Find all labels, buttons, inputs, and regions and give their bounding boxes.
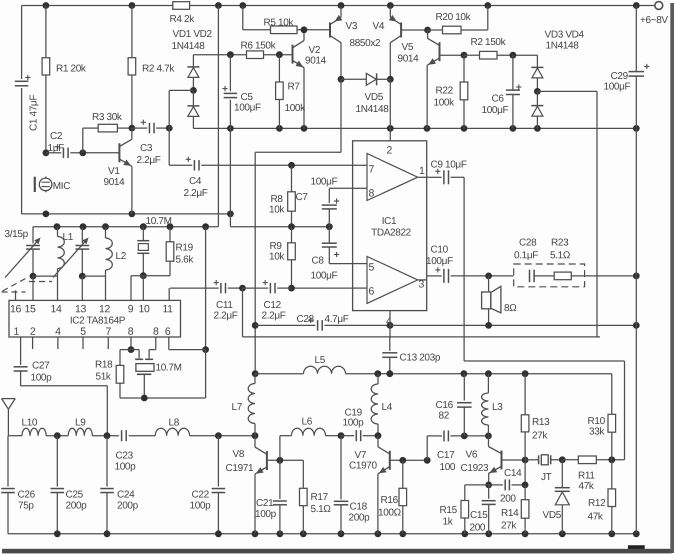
svg-text:100p: 100p xyxy=(255,509,277,520)
svg-text:L8: L8 xyxy=(168,418,179,429)
wire keying row xyxy=(464,360,624,362)
node R7 top xyxy=(276,51,283,58)
wire speaker bottom row xyxy=(390,324,636,326)
svg-text:R20 10k: R20 10k xyxy=(435,12,471,23)
transistor V6 xyxy=(488,436,490,447)
svg-text:2.2μF: 2.2μF xyxy=(261,311,285,322)
svg-text:R18: R18 xyxy=(95,360,113,371)
svg-text:VD1 VD2: VD1 VD2 xyxy=(172,29,212,40)
svg-text:0.1μF: 0.1μF xyxy=(514,250,538,261)
svg-text:1: 1 xyxy=(14,326,20,338)
svg-text:33k: 33k xyxy=(589,427,605,438)
page border right xyxy=(670,3,674,553)
inductor L5 xyxy=(255,373,303,375)
svg-text:200: 200 xyxy=(469,523,485,534)
IC U1 TDA2822 box xyxy=(353,141,427,311)
svg-text:9014: 9014 xyxy=(305,56,327,67)
svg-text:14: 14 xyxy=(51,303,62,315)
resistor R11 xyxy=(562,459,578,461)
inductor L1 xyxy=(57,227,59,237)
svg-text:100k: 100k xyxy=(433,98,455,109)
svg-text:2.2μF: 2.2μF xyxy=(183,188,207,199)
trimmer capacitor CT2 xyxy=(81,227,83,244)
svg-text:C10: C10 xyxy=(430,245,448,256)
node R8 top on pin7 row xyxy=(288,162,295,169)
pin 1 stub xyxy=(418,176,427,178)
svg-text:C28: C28 xyxy=(296,314,314,325)
svg-text:2: 2 xyxy=(386,145,392,157)
svg-text:JT: JT xyxy=(541,472,552,483)
wire C3 node riser to diode midpoint xyxy=(168,90,170,128)
svg-text:100μF: 100μF xyxy=(481,105,508,116)
svg-text:3/15p: 3/15p xyxy=(4,229,28,240)
wire RF row xyxy=(8,435,22,437)
svg-text:C22: C22 xyxy=(191,490,209,501)
capacitor C16 xyxy=(463,374,465,401)
svg-text:V4: V4 xyxy=(372,21,384,32)
svg-text:8850x2: 8850x2 xyxy=(349,38,381,49)
microphone MIC xyxy=(45,177,47,193)
svg-text:C14: C14 xyxy=(504,468,522,479)
svg-text:TDA2822: TDA2822 xyxy=(371,227,412,238)
capacitor C5 xyxy=(227,51,234,58)
wire V2 emitter xyxy=(303,68,305,129)
wire audio ground link column xyxy=(254,152,256,373)
svg-text:100p: 100p xyxy=(342,418,364,429)
capacitor C10 xyxy=(427,275,442,277)
page border bottom xyxy=(2,549,672,554)
svg-text:75p: 75p xyxy=(18,501,34,512)
svg-text:R5 10k: R5 10k xyxy=(263,18,294,29)
trimmer capacitor CT1 xyxy=(32,227,34,244)
svg-text:V3: V3 xyxy=(345,21,357,32)
wire pin6 row xyxy=(292,287,353,289)
op-amp A1 triangle xyxy=(367,154,418,201)
resistor R17 xyxy=(302,460,304,488)
wire filter ground row xyxy=(120,397,206,399)
svg-text:47k: 47k xyxy=(578,481,594,492)
svg-text:L4: L4 xyxy=(381,402,392,413)
svg-text:100p: 100p xyxy=(189,501,211,512)
wire V2 collector xyxy=(303,30,305,41)
node V7 collector xyxy=(338,432,345,439)
capacitor C1 xyxy=(15,80,29,82)
svg-text:5.1Ω: 5.1Ω xyxy=(550,250,571,261)
resistor R6 xyxy=(247,51,264,59)
svg-text:1N4148: 1N4148 xyxy=(545,41,579,52)
svg-text:2: 2 xyxy=(30,326,36,338)
svg-text:C1970: C1970 xyxy=(349,461,378,472)
dashed network box xyxy=(514,264,585,287)
node varactor top xyxy=(559,456,566,463)
svg-text:L7: L7 xyxy=(231,402,242,413)
svg-text:11: 11 xyxy=(162,303,173,315)
svg-text:R12: R12 xyxy=(588,498,606,509)
resistor R12 xyxy=(611,460,613,489)
capacitor C27 xyxy=(20,337,22,365)
resistor R7 xyxy=(278,55,280,82)
svg-text:C5: C5 xyxy=(240,92,253,103)
capacitor C25 xyxy=(56,436,58,487)
wire C9 drop to keying row xyxy=(463,177,465,361)
capacitor C8 xyxy=(328,227,330,244)
pin5 stub xyxy=(82,337,84,349)
svg-text:C1923: C1923 xyxy=(460,463,489,474)
wire V4 base row xyxy=(401,29,428,31)
svg-text:6: 6 xyxy=(368,286,374,298)
svg-text:7: 7 xyxy=(368,164,374,176)
svg-text:1: 1 xyxy=(419,165,425,177)
pin 5 stub xyxy=(353,263,367,265)
capacitor C28 0.1uF xyxy=(529,270,531,283)
ceramic filter 10.7M lower xyxy=(155,337,157,350)
resistor R3 xyxy=(83,127,98,129)
svg-text:C16: C16 xyxy=(435,400,453,411)
wire pin4 column xyxy=(389,311,391,337)
inductor L2 xyxy=(105,227,107,238)
svg-text:C8: C8 xyxy=(311,256,324,267)
wire C27 link down to RF row xyxy=(106,386,108,436)
node C11/C12 xyxy=(239,285,246,292)
resistor R10 xyxy=(611,374,613,415)
capacitor C3 xyxy=(132,127,147,129)
svg-text:10.7M: 10.7M xyxy=(145,216,171,227)
svg-text:R2 150k: R2 150k xyxy=(470,37,506,48)
transistor V2 xyxy=(292,45,294,64)
svg-text:IC1: IC1 xyxy=(382,216,397,227)
wire R6 row xyxy=(193,54,246,56)
wire VD3/VD4 midpoint to squelch column xyxy=(537,90,597,92)
svg-text:200p: 200p xyxy=(348,513,370,524)
wire IF rail xyxy=(33,226,218,228)
svg-text:C7: C7 xyxy=(295,192,308,203)
transistor V1 xyxy=(118,143,120,162)
wire L5 row xyxy=(378,373,612,375)
resistor R1 xyxy=(45,6,47,58)
svg-text:R8: R8 xyxy=(270,194,283,205)
svg-text:L9: L9 xyxy=(75,418,86,429)
svg-text:C27: C27 xyxy=(32,361,50,372)
svg-text:8: 8 xyxy=(368,188,374,200)
pin7 stub xyxy=(107,337,109,349)
wire +V feed column A xyxy=(217,6,219,227)
svg-text:R23: R23 xyxy=(551,238,569,249)
svg-text:R3 30k: R3 30k xyxy=(92,112,123,123)
resistor R18 xyxy=(130,337,132,350)
capacitor C19 xyxy=(341,435,354,437)
svg-text:C21: C21 xyxy=(256,498,274,509)
svg-text:R4 2k: R4 2k xyxy=(169,14,195,25)
svg-text:100μF: 100μF xyxy=(603,82,630,93)
svg-text:L6: L6 xyxy=(301,417,312,428)
wire left column xyxy=(21,6,23,80)
diode VD4 xyxy=(536,91,538,105)
ground symbol xyxy=(628,545,645,549)
svg-text:R15: R15 xyxy=(439,505,457,516)
varactor diode VD5 xyxy=(561,460,563,488)
svg-text:R19: R19 xyxy=(175,243,193,254)
svg-text:100p: 100p xyxy=(114,462,136,473)
wire V8 base row xyxy=(267,459,303,461)
svg-text:R7: R7 xyxy=(287,82,300,93)
resistor R22 xyxy=(463,55,465,82)
resistor R9 xyxy=(291,227,293,243)
transistor V8 xyxy=(254,436,256,447)
svg-text:C25: C25 xyxy=(65,490,83,501)
svg-text:V7: V7 xyxy=(354,450,366,461)
svg-text:27k: 27k xyxy=(501,521,517,532)
wire pin6 link xyxy=(168,337,170,350)
wire base row to V1 xyxy=(83,152,120,154)
svg-text:1μF: 1μF xyxy=(47,143,64,154)
diode VD5 xyxy=(338,76,345,83)
svg-text:100k: 100k xyxy=(284,103,306,114)
capacitor C2 xyxy=(43,149,50,156)
gang dashed links xyxy=(2,291,26,293)
wire mid bias rail xyxy=(193,127,636,129)
svg-text:V5: V5 xyxy=(401,42,413,53)
wire C11 node drop xyxy=(242,288,244,337)
svg-text:9014: 9014 xyxy=(397,54,419,65)
svg-text:C6: C6 xyxy=(491,94,504,105)
node top rail junctions xyxy=(43,2,50,9)
svg-text:R1 20k: R1 20k xyxy=(56,64,87,75)
svg-text:1N4148: 1N4148 xyxy=(171,41,205,52)
svg-text:27k: 27k xyxy=(532,431,548,442)
svg-text:100μF: 100μF xyxy=(426,256,453,267)
capacitor C18 xyxy=(340,436,342,500)
svg-text:MIC: MIC xyxy=(53,181,70,192)
svg-text:VD3 VD4: VD3 VD4 xyxy=(544,30,584,41)
svg-text:13: 13 xyxy=(75,303,86,315)
capacitor C12 xyxy=(243,287,269,289)
svg-text:C24: C24 xyxy=(117,490,135,501)
svg-text:C18: C18 xyxy=(349,502,367,513)
svg-text:R6 150k: R6 150k xyxy=(240,41,276,52)
diode VD1 xyxy=(192,55,194,67)
node bias row xyxy=(288,223,295,230)
capacitor C15 xyxy=(488,485,490,499)
pin4 stub xyxy=(57,337,59,349)
diode VD2 xyxy=(192,90,194,106)
svg-text:5: 5 xyxy=(368,262,374,274)
pin 6 stub xyxy=(353,287,367,289)
transistor V3 xyxy=(329,23,331,38)
wire V5 base row xyxy=(440,54,465,56)
wire squelch long row xyxy=(243,336,601,338)
capacitor C7 xyxy=(329,187,352,189)
resistor R8 xyxy=(291,165,293,192)
transistor V5 xyxy=(439,42,441,61)
transistor V4 xyxy=(400,23,402,38)
capacitor C29 xyxy=(635,6,637,72)
resistor R14 xyxy=(524,460,526,485)
svg-text:5: 5 xyxy=(80,326,86,338)
svg-text:L2: L2 xyxy=(115,251,126,262)
svg-text:C3: C3 xyxy=(140,143,153,154)
resistor R4 xyxy=(173,2,190,10)
wire IF detector column xyxy=(205,227,207,350)
svg-text:R16: R16 xyxy=(380,495,398,506)
svg-text:8: 8 xyxy=(153,326,159,338)
terminal +6~8V xyxy=(655,2,663,10)
crystal JT xyxy=(525,459,539,461)
resistor R13 xyxy=(524,374,526,415)
wire crystal bottom row to pins 9/10 xyxy=(140,272,147,279)
svg-text:9014: 9014 xyxy=(103,177,125,188)
node C3 out xyxy=(166,125,173,132)
svg-text:10k: 10k xyxy=(269,205,285,216)
resistor R20 xyxy=(428,29,443,31)
svg-text:R13: R13 xyxy=(532,417,550,428)
antenna xyxy=(2,398,16,400)
capacitor C24 xyxy=(106,436,108,487)
svg-text:200p: 200p xyxy=(117,501,139,512)
capacitor C13 xyxy=(389,337,391,351)
inductor L7 xyxy=(254,374,256,384)
svg-text:16: 16 xyxy=(10,303,21,315)
inductor L3 xyxy=(487,374,489,393)
diode VD3 xyxy=(536,55,538,67)
wire antenna column xyxy=(7,436,9,487)
svg-text:L10: L10 xyxy=(21,418,37,429)
node diode midpoint xyxy=(192,77,194,90)
capacitor C22 xyxy=(217,436,219,487)
wire V6 base row xyxy=(502,459,526,461)
svg-text:C1 47μF: C1 47μF xyxy=(29,95,40,131)
capacitor C23 xyxy=(121,430,123,441)
svg-text:C1971: C1971 xyxy=(225,463,254,474)
pin16 stub xyxy=(15,290,17,300)
node V6 emitter xyxy=(485,482,492,489)
node V1 collector xyxy=(129,125,136,132)
svg-text:200: 200 xyxy=(500,494,516,505)
speaker 8ohm xyxy=(488,276,490,292)
svg-text:10: 10 xyxy=(139,303,150,315)
svg-text:1k: 1k xyxy=(442,517,453,528)
resistor R23 xyxy=(554,272,571,280)
svg-text:VD5: VD5 xyxy=(364,92,383,103)
capacitor C17 xyxy=(427,435,442,437)
wire V7 base row xyxy=(390,459,427,461)
op-amp A2 triangle xyxy=(367,256,418,303)
wire +V top rail xyxy=(22,5,655,7)
node speaker row xyxy=(485,273,492,280)
inductor L9 xyxy=(68,428,92,436)
svg-text:1N4148: 1N4148 xyxy=(355,104,389,115)
svg-text:100: 100 xyxy=(439,462,455,473)
svg-text:100Ω: 100Ω xyxy=(378,508,402,519)
svg-text:C9 10μF: C9 10μF xyxy=(430,160,466,171)
resistor R19 xyxy=(169,227,171,242)
svg-text:V6: V6 xyxy=(465,450,477,461)
wire V4 collector to IC1 pin2 xyxy=(389,79,391,128)
pin 3 stub xyxy=(418,279,427,281)
svg-text:L5: L5 xyxy=(314,355,325,366)
svg-text:C15: C15 xyxy=(470,510,488,521)
svg-text:+6~8V: +6~8V xyxy=(640,15,668,26)
wire right ground column xyxy=(635,128,637,533)
pin 8 stub xyxy=(353,187,367,189)
svg-text:R9: R9 xyxy=(269,241,282,252)
resistor R16 xyxy=(402,460,404,488)
svg-text:100μF: 100μF xyxy=(310,177,337,188)
capacitor C14 xyxy=(489,484,503,486)
resistor R2 xyxy=(131,6,133,58)
svg-text:R17: R17 xyxy=(310,492,328,503)
svg-text:V1: V1 xyxy=(108,166,120,177)
svg-text:100μF: 100μF xyxy=(234,103,261,114)
transistor V7 xyxy=(377,436,379,447)
svg-text:47k: 47k xyxy=(587,512,603,523)
svg-text:100p: 100p xyxy=(30,373,52,384)
svg-text:82: 82 xyxy=(438,411,449,422)
resistor R5 xyxy=(242,6,244,30)
capacitor C26 xyxy=(1,488,15,490)
svg-text:C11: C11 xyxy=(216,300,233,311)
svg-text:15: 15 xyxy=(25,303,36,315)
svg-text:5.1Ω: 5.1Ω xyxy=(310,504,331,515)
svg-text:C23: C23 xyxy=(115,451,133,462)
wire C17 row link xyxy=(426,436,428,460)
capacitor C21 xyxy=(279,460,281,499)
svg-text:4.7μF: 4.7μF xyxy=(324,314,348,325)
svg-text:C4: C4 xyxy=(189,176,202,187)
svg-text:C13 203p: C13 203p xyxy=(399,353,440,364)
svg-text:R14: R14 xyxy=(501,508,519,519)
svg-text:IC2 TA8164P: IC2 TA8164P xyxy=(70,315,126,326)
wire ground rail bottom xyxy=(8,533,636,535)
pin 7 stub xyxy=(353,164,367,166)
svg-text:8Ω: 8Ω xyxy=(504,303,517,314)
inductor L6 xyxy=(279,436,281,461)
svg-text:3: 3 xyxy=(418,279,424,291)
svg-text:V2: V2 xyxy=(308,45,320,56)
svg-text:L3: L3 xyxy=(492,402,503,413)
svg-text:C28: C28 xyxy=(519,238,537,249)
wire audio bottom rail xyxy=(22,213,231,215)
svg-text:6: 6 xyxy=(165,326,171,338)
wire C3 node drop to C4 row xyxy=(168,128,170,165)
svg-text:9: 9 xyxy=(128,303,134,315)
svg-text:V8: V8 xyxy=(232,449,244,460)
svg-text:C26: C26 xyxy=(17,490,35,501)
capacitor C9 xyxy=(427,176,442,178)
svg-text:VD5: VD5 xyxy=(542,510,561,521)
wire pin11 riser xyxy=(168,288,170,300)
svg-text:R11: R11 xyxy=(578,471,595,482)
svg-text:100μF: 100μF xyxy=(310,271,337,282)
pin2 stub xyxy=(32,337,34,349)
inductor L8 xyxy=(155,428,189,435)
svg-text:51k: 51k xyxy=(95,372,111,383)
svg-text:C2: C2 xyxy=(50,131,63,142)
svg-text:2.2μF: 2.2μF xyxy=(213,311,237,322)
capacitor C28 4.7uF xyxy=(255,324,315,326)
svg-text:2.2μF: 2.2μF xyxy=(136,155,160,166)
svg-text:10k: 10k xyxy=(269,252,285,263)
inductor L4 xyxy=(377,374,379,384)
wire C5 column to audio rail and IF feed xyxy=(229,128,231,214)
inductor L10 xyxy=(22,428,46,436)
svg-text:5.6k: 5.6k xyxy=(175,255,194,266)
svg-text:C17: C17 xyxy=(437,450,455,461)
svg-text:8: 8 xyxy=(128,326,134,338)
capacitor C4 xyxy=(169,164,192,166)
svg-text:R10: R10 xyxy=(587,416,605,427)
svg-text:200p: 200p xyxy=(65,501,87,512)
resistor R2 150k xyxy=(464,54,480,56)
